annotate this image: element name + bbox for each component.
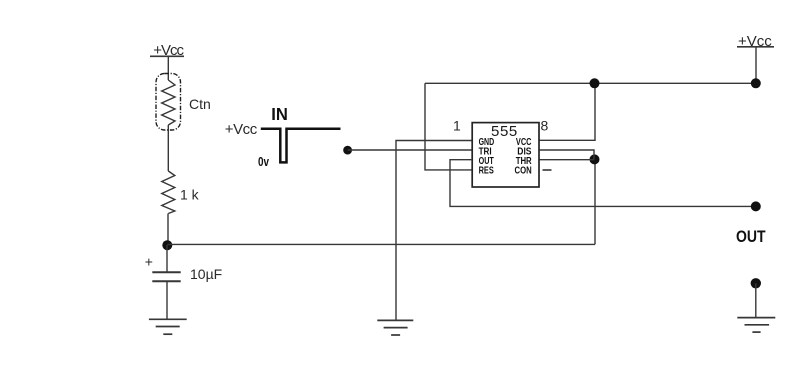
svg-text:CON: CON [515,165,532,177]
node top rail / VCC [590,78,600,88]
wire VCC pin to top rail [539,83,595,140]
ground (left) [149,319,187,334]
resistor R1 1k [162,171,200,214]
wire DIS pin to node [539,150,594,159]
node input terminal [343,146,352,155]
wire TRI pin to input terminal [348,149,472,151]
wire CON stub [543,169,552,171]
svg-text:+: + [145,254,153,270]
IC U1 555 [453,117,549,187]
svg-text:IN: IN [271,104,288,124]
svg-text:8: 8 [541,117,549,133]
wire junction to capacitor [166,245,168,272]
power rail +Vcc left [150,42,185,59]
wire top rail [425,82,756,84]
svg-text:10µF: 10µF [190,266,222,282]
svg-text:+Vcc: +Vcc [225,121,258,138]
ground (right) [737,318,775,333]
svg-text:Ctn: Ctn [189,96,211,112]
svg-text:OUT: OUT [736,228,766,246]
node THR/DIS junction [590,154,600,164]
svg-text:1 k: 1 k [180,187,200,203]
wire 0v terminal to ground [755,283,757,317]
wire RES pin to top rail [425,83,472,170]
wire R1 to junction [167,214,169,246]
node top rail right end [751,78,761,88]
svg-text:0v: 0v [258,155,269,169]
svg-text:555: 555 [491,123,518,140]
thermistor Ctn [156,74,211,131]
node junction cap/R1 [162,240,172,250]
wire THR pin to node [539,159,595,161]
wire capacitor to ground [166,282,168,319]
svg-text:1: 1 [453,117,461,133]
node OUT terminal [751,201,761,211]
wire thermistor to R1 [167,125,169,171]
wire OUT pin loop to OUT terminal [450,160,756,207]
capacitor C1 10uF [145,254,222,283]
wire GND pin down to ground [396,141,472,320]
wire vertical up to THR node [594,160,596,245]
svg-text:RES: RES [479,165,494,177]
node 0v terminal (bottom right) [751,278,761,288]
wire Vcc to thermistor [167,56,169,80]
power rail +Vcc right [737,33,774,83]
wire junction to THR/DIS vertical (long horizontal) [167,243,595,245]
input pulse symbol [225,104,341,169]
ground (middle) [377,320,413,335]
